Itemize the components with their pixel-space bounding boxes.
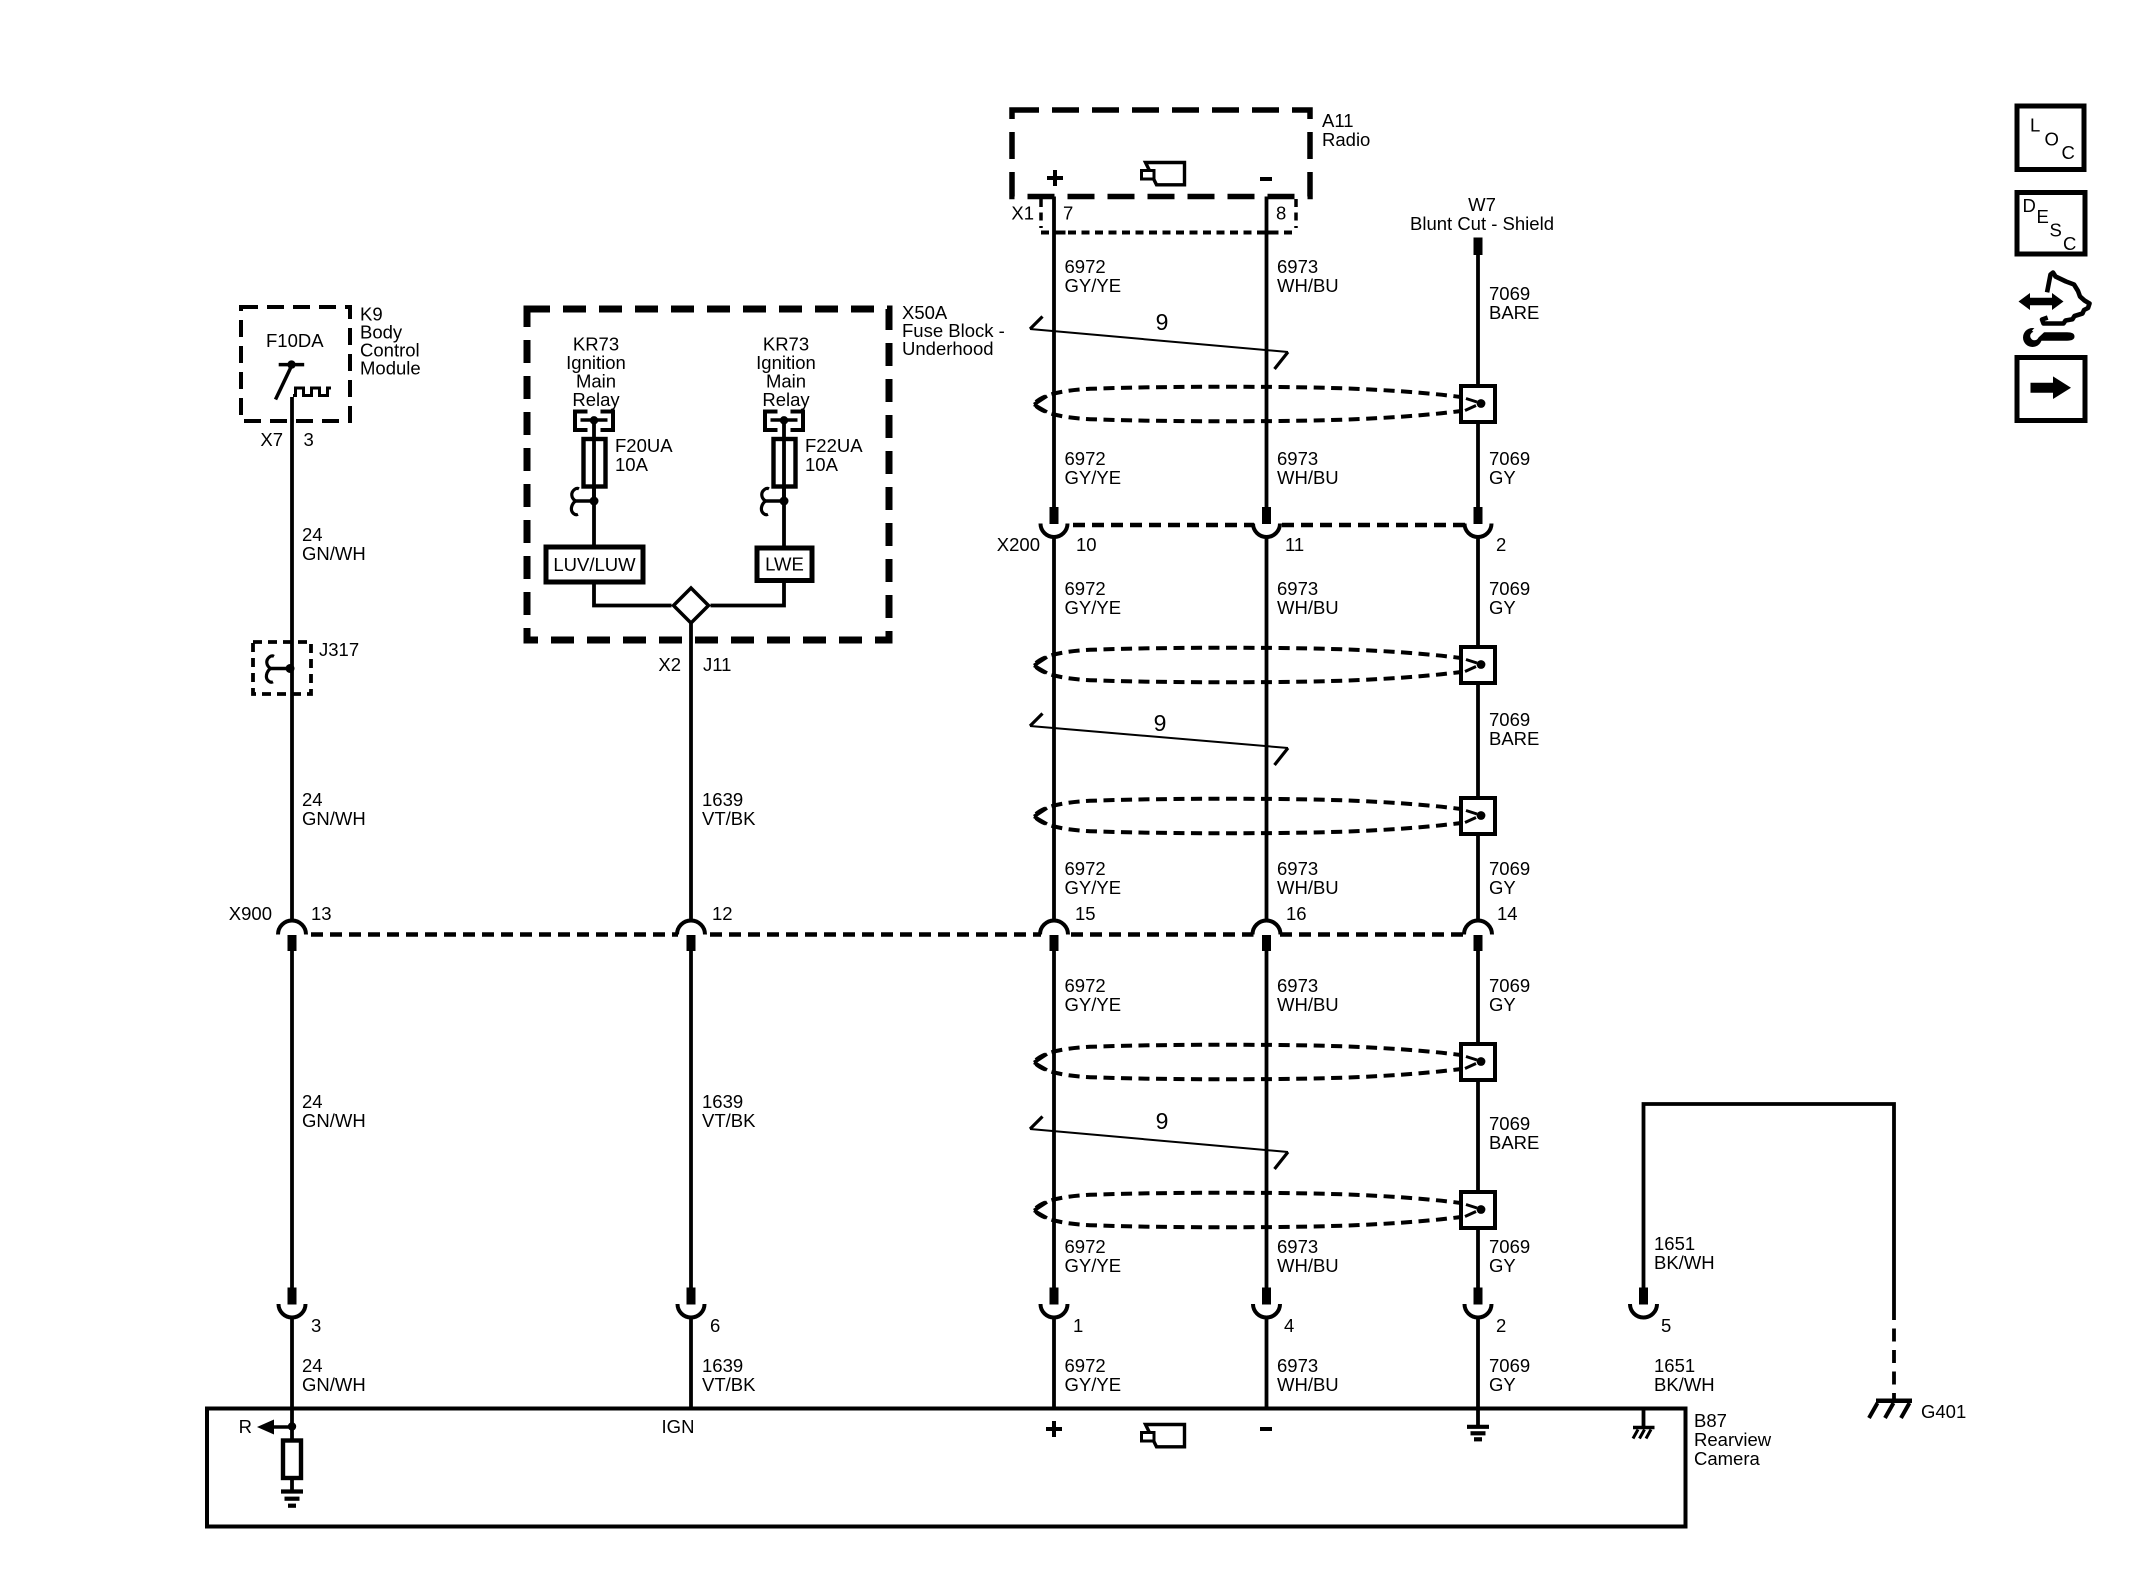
svg-text:6973: 6973: [1277, 858, 1318, 879]
wire 6973 segment 3 (X900 to camera): [1265, 951, 1269, 1288]
connector X1 (dashed): [1041, 199, 1296, 233]
svg-text:3: 3: [304, 429, 314, 450]
svg-text:BK/WH: BK/WH: [1654, 1252, 1715, 1273]
X900 terminal at pin 16: [1253, 921, 1281, 952]
svg-text:D: D: [2023, 195, 2036, 216]
svg-text:Radio: Radio: [1322, 129, 1370, 150]
camera icon (radio): [1146, 163, 1185, 185]
svg-text:9: 9: [1156, 309, 1169, 335]
shield ellipse 2: [1034, 648, 1461, 683]
svg-text:Relay: Relay: [762, 389, 810, 410]
wire 1639 segment 3 (into camera box): [689, 1318, 693, 1409]
junction dot R: [288, 1422, 296, 1430]
camera connector terminal pin 3: [279, 1288, 306, 1318]
X200 terminal at pin 11: [1253, 507, 1280, 537]
wire 6972 segment 3 (X900 to camera): [1052, 951, 1056, 1288]
svg-text:GY: GY: [1489, 1255, 1516, 1276]
wire relay1 to fuse1: [592, 422, 596, 501]
wire 24 GN/WH segment 4 (into camera box): [290, 1318, 294, 1424]
X900 terminal at pin 13: [278, 921, 306, 952]
svg-text:24: 24: [302, 524, 323, 545]
svg-text:6973: 6973: [1277, 1236, 1318, 1257]
svg-text:WH/BU: WH/BU: [1277, 467, 1339, 488]
X900 terminal at pin 14: [1464, 921, 1492, 952]
svg-text:WH/BU: WH/BU: [1277, 994, 1339, 1015]
svg-text:LUV/LUW: LUV/LUW: [553, 554, 636, 575]
svg-text:GY/YE: GY/YE: [1065, 1255, 1122, 1276]
camera connector terminal pin 2: [1465, 1288, 1492, 1318]
splice J317 dashed box: [253, 642, 311, 694]
camera connector terminal pin 6: [678, 1288, 705, 1318]
X200 terminal at pin 2: [1465, 507, 1492, 537]
svg-text:Underhood: Underhood: [902, 338, 994, 359]
minus terminal (radio): [1260, 177, 1272, 181]
B87 rearview camera box: [207, 1409, 1686, 1527]
svg-text:VT/BK: VT/BK: [702, 1374, 756, 1395]
svg-text:IGN: IGN: [662, 1416, 695, 1437]
shield terminal box 2: [1461, 647, 1495, 683]
wire 6972 segment 4 (into camera box): [1052, 1318, 1056, 1409]
svg-text:7069: 7069: [1489, 283, 1530, 304]
svg-text:Rearview: Rearview: [1694, 1429, 1772, 1450]
svg-text:GY/YE: GY/YE: [1065, 467, 1122, 488]
svg-text:5: 5: [1661, 1315, 1671, 1336]
chassis ground 1651 (camera internal): [1633, 1409, 1655, 1439]
svg-text:X900: X900: [229, 903, 272, 924]
wire to G401 (dashed): [1892, 1307, 1896, 1399]
wire 1639 segment 2 (X900 to camera): [689, 951, 693, 1288]
svg-text:6: 6: [710, 1315, 720, 1336]
shield ellipse 3: [1034, 799, 1461, 834]
svg-text:12: 12: [712, 903, 733, 924]
svg-text:GY/YE: GY/YE: [1065, 597, 1122, 618]
shield terminal box 5: [1461, 1192, 1495, 1228]
svg-text:8: 8: [1276, 203, 1286, 224]
svg-text:7069: 7069: [1489, 975, 1530, 996]
wire 6972 segment 1 (radio to X200): [1052, 197, 1056, 508]
svg-text:WH/BU: WH/BU: [1277, 877, 1339, 898]
diagnostic tool icon (double arrow, outline, wrench): [2019, 273, 2090, 348]
shield terminal box 1: [1461, 386, 1495, 422]
svg-text:2: 2: [1496, 1315, 1506, 1336]
svg-text:6973: 6973: [1277, 256, 1318, 277]
LUV/LUW box: [546, 547, 643, 582]
svg-text:9: 9: [1156, 1108, 1169, 1134]
relay 2 contact: [765, 412, 803, 431]
svg-text:24: 24: [302, 789, 323, 810]
wire 7069 segment 1: [1476, 255, 1480, 386]
svg-text:GY: GY: [1489, 597, 1516, 618]
wire 7069 segment 3: [1476, 537, 1480, 647]
X50A fuse block box: [527, 309, 889, 640]
wire LUV to junction: [594, 582, 672, 606]
svg-text:7069: 7069: [1489, 448, 1530, 469]
X200 terminal at pin 10: [1041, 507, 1068, 537]
svg-text:LWE: LWE: [765, 554, 804, 575]
svg-text:WH/BU: WH/BU: [1277, 1255, 1339, 1276]
svg-text:7069: 7069: [1489, 578, 1530, 599]
svg-text:BARE: BARE: [1489, 728, 1539, 749]
plus terminal (camera): [1046, 1421, 1062, 1437]
svg-text:1639: 1639: [702, 1355, 743, 1376]
ground G401: [1869, 1401, 1912, 1418]
svg-text:X200: X200: [997, 534, 1040, 555]
relay 1 contact: [575, 412, 613, 431]
svg-text:1651: 1651: [1654, 1355, 1695, 1376]
svg-text:1: 1: [1073, 1315, 1083, 1336]
camera connector terminal pin 4: [1253, 1288, 1280, 1318]
camera connector terminal pin 5: [1630, 1288, 1657, 1318]
next-page arrow box: [2017, 358, 2085, 421]
svg-text:7069: 7069: [1489, 1236, 1530, 1257]
svg-text:7069: 7069: [1489, 1355, 1530, 1376]
svg-text:6972: 6972: [1065, 1236, 1106, 1257]
splice clip 2: [761, 488, 788, 514]
svg-text:7: 7: [1063, 203, 1073, 224]
wire 6972 segment 2 (X200 to X900): [1052, 537, 1056, 921]
connector X200 dashed line: [1054, 523, 1478, 528]
svg-text:6973: 6973: [1277, 578, 1318, 599]
svg-text:Blunt Cut - Shield: Blunt Cut - Shield: [1410, 213, 1554, 234]
shield ellipse 1: [1034, 387, 1461, 422]
X900 terminal at pin 15: [1040, 921, 1068, 952]
svg-text:Camera: Camera: [1694, 1448, 1761, 1469]
wire 6973 segment 4 (into camera box): [1265, 1318, 1269, 1409]
K9 body control module box: [241, 307, 350, 421]
pin 8 tick: [1267, 231, 1279, 235]
wire relay2 to fuse2: [782, 422, 786, 501]
wire 1651 BK/WH (corner run): [1644, 1104, 1895, 1307]
LWE box: [757, 548, 812, 581]
wire 24 GN/WH segment 3 (X900 to camera): [290, 951, 294, 1288]
twisted pair symbol 9 (lower): [1030, 1108, 1288, 1169]
svg-text:X7: X7: [260, 429, 283, 450]
svg-text:7069: 7069: [1489, 858, 1530, 879]
shield terminal box 3: [1461, 798, 1495, 834]
wire 7069 segment 4: [1476, 683, 1480, 798]
svg-text:WH/BU: WH/BU: [1277, 275, 1339, 296]
twisted pair symbol 9 (middle): [1030, 710, 1288, 765]
wire 7069 segment 7: [1476, 1080, 1480, 1192]
svg-text:24: 24: [302, 1091, 323, 1112]
wire fuse1 to clip: [592, 487, 596, 548]
svg-text:10A: 10A: [615, 454, 649, 475]
LOC legend box: [2017, 106, 2084, 170]
svg-text:3: 3: [311, 1315, 321, 1336]
svg-text:6972: 6972: [1065, 256, 1106, 277]
svg-text:F10DA: F10DA: [266, 330, 324, 351]
svg-text:J317: J317: [319, 639, 359, 660]
svg-text:GN/WH: GN/WH: [302, 808, 366, 829]
splice clip J317: [266, 656, 294, 682]
wire fuse2 to LWE: [782, 487, 786, 549]
shield terminal box 4: [1461, 1044, 1495, 1080]
svg-text:E: E: [2037, 206, 2049, 227]
svg-text:S: S: [2050, 220, 2062, 241]
svg-text:Module: Module: [360, 358, 421, 379]
svg-text:Relay: Relay: [572, 389, 620, 410]
svg-text:GY: GY: [1489, 877, 1516, 898]
svg-text:GN/WH: GN/WH: [302, 1110, 366, 1131]
svg-text:BARE: BARE: [1489, 302, 1539, 323]
wire 6973 segment 1 (radio to X200): [1265, 197, 1269, 508]
svg-text:2: 2: [1496, 534, 1506, 555]
resistor (camera internal): [283, 1424, 301, 1490]
wire 1639 segment 1 (diamond to X900): [689, 623, 693, 921]
svg-text:13: 13: [311, 903, 332, 924]
wire 24 GN/WH segment 1 (inside K9 to X7): [290, 397, 294, 921]
shield ellipse 5: [1034, 1193, 1461, 1228]
svg-text:GN/WH: GN/WH: [302, 543, 366, 564]
svg-text:10: 10: [1076, 534, 1097, 555]
svg-text:14: 14: [1497, 903, 1518, 924]
svg-text:7069: 7069: [1489, 1113, 1530, 1134]
wire 7069 segment 5: [1476, 834, 1480, 921]
svg-text:6972: 6972: [1065, 1355, 1106, 1376]
svg-text:1651: 1651: [1654, 1233, 1695, 1254]
svg-text:9: 9: [1154, 710, 1167, 736]
wire 6973 segment 2 (X200 to X900): [1265, 537, 1269, 921]
svg-text:J11: J11: [703, 654, 731, 675]
svg-text:GY: GY: [1489, 1374, 1516, 1395]
svg-text:6972: 6972: [1065, 858, 1106, 879]
svg-text:15: 15: [1075, 903, 1096, 924]
camera connector terminal pin 1: [1041, 1288, 1068, 1318]
junction diamond: [674, 588, 709, 623]
wire 7069 segment 6: [1476, 951, 1480, 1044]
DESC legend box: [2017, 193, 2085, 255]
fuse F22UA: [774, 439, 796, 487]
ground terminal 7069 (camera internal): [1467, 1409, 1489, 1440]
svg-text:GY/YE: GY/YE: [1065, 275, 1122, 296]
svg-text:VT/BK: VT/BK: [702, 808, 756, 829]
svg-text:R: R: [239, 1416, 252, 1437]
svg-text:G401: G401: [1921, 1401, 1966, 1422]
svg-text:BARE: BARE: [1489, 1132, 1539, 1153]
pin 7 tick: [1054, 231, 1066, 235]
plus terminal (radio): [1047, 170, 1063, 186]
shield ellipse 4: [1034, 1045, 1461, 1080]
svg-text:BK/WH: BK/WH: [1654, 1374, 1715, 1395]
svg-text:O: O: [2045, 128, 2059, 149]
svg-text:16: 16: [1286, 903, 1307, 924]
connector X900 dashed line: [292, 932, 1478, 937]
svg-text:F22UA: F22UA: [805, 435, 863, 456]
svg-text:10A: 10A: [805, 454, 839, 475]
F10DA electronic fuse (switch + thermal element): [276, 360, 332, 399]
svg-text:C: C: [2063, 233, 2076, 254]
svg-text:GY/YE: GY/YE: [1065, 1374, 1122, 1395]
ground (camera internal, left): [281, 1492, 303, 1506]
svg-text:24: 24: [302, 1355, 323, 1376]
W7 blunt-cut stub: [1474, 238, 1483, 256]
svg-text:7069: 7069: [1489, 709, 1530, 730]
svg-text:VT/BK: VT/BK: [702, 1110, 756, 1131]
R arrow: [257, 1420, 292, 1435]
twisted pair symbol 9 (upper): [1030, 309, 1288, 369]
svg-text:GY/YE: GY/YE: [1065, 994, 1122, 1015]
svg-text:6973: 6973: [1277, 448, 1318, 469]
svg-text:6972: 6972: [1065, 448, 1106, 469]
svg-text:L: L: [2030, 115, 2040, 136]
wire LWE to junction: [711, 581, 785, 606]
svg-text:B87: B87: [1694, 1410, 1727, 1431]
svg-text:F20UA: F20UA: [615, 435, 673, 456]
radio A11 box: [1012, 110, 1310, 197]
X900 terminal at pin 12: [677, 921, 705, 952]
svg-text:6973: 6973: [1277, 1355, 1318, 1376]
svg-text:C: C: [2062, 142, 2075, 163]
svg-text:W7: W7: [1468, 194, 1496, 215]
svg-text:A11: A11: [1322, 110, 1354, 131]
svg-text:6972: 6972: [1065, 975, 1106, 996]
svg-text:X1: X1: [1011, 203, 1034, 224]
svg-text:WH/BU: WH/BU: [1277, 597, 1339, 618]
svg-text:GY: GY: [1489, 467, 1516, 488]
svg-text:GY: GY: [1489, 994, 1516, 1015]
wire 7069 segment 8: [1476, 1228, 1480, 1288]
svg-text:11: 11: [1285, 534, 1304, 555]
svg-text:X2: X2: [658, 654, 681, 675]
svg-text:6972: 6972: [1065, 578, 1106, 599]
camera icon (camera box): [1146, 1425, 1185, 1447]
wire 7069 segment 2: [1476, 422, 1480, 507]
svg-text:6973: 6973: [1277, 975, 1318, 996]
svg-text:1639: 1639: [702, 789, 743, 810]
splice clip 1: [571, 488, 598, 514]
svg-text:4: 4: [1284, 1315, 1294, 1336]
wire 7069 segment 9 (into camera box): [1476, 1318, 1480, 1409]
svg-text:1639: 1639: [702, 1091, 743, 1112]
minus terminal (camera): [1260, 1427, 1272, 1431]
svg-text:GN/WH: GN/WH: [302, 1374, 366, 1395]
svg-text:GY/YE: GY/YE: [1065, 877, 1122, 898]
svg-text:WH/BU: WH/BU: [1277, 1374, 1339, 1395]
fuse F20UA: [584, 439, 606, 487]
